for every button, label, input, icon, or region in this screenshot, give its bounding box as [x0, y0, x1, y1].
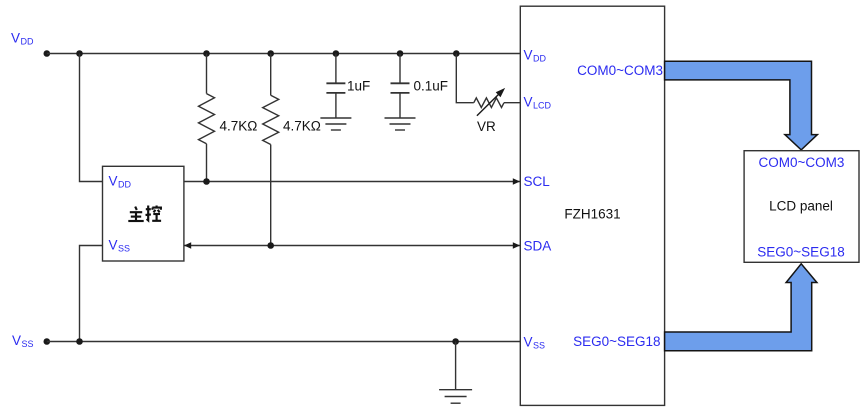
- svg-text:DD: DD: [118, 180, 131, 190]
- pin label U1 VLCD: [524, 95, 552, 111]
- node VSS terminal dot: [44, 338, 51, 345]
- node VSS label: [12, 333, 34, 349]
- svg-text:SS: SS: [118, 244, 130, 254]
- junction dot VDD rail / MCU branch: [76, 50, 83, 57]
- junction dot SDA / R2: [267, 242, 274, 249]
- svg-text:VR: VR: [477, 119, 496, 134]
- svg-text:DD: DD: [21, 37, 34, 47]
- capacitor C2 0.1uF: [391, 54, 410, 119]
- svg-text:SS: SS: [22, 339, 34, 349]
- svg-text:V: V: [12, 333, 21, 348]
- arrowhead SCL into U1: [513, 178, 520, 185]
- wire SCL net: [184, 181, 520, 183]
- svg-text:SDA: SDA: [524, 239, 552, 254]
- pin label MCU VDD: [109, 174, 132, 190]
- junction dot VSS rail / MCU: [76, 338, 83, 345]
- resistor R1 4.7K (SCL pull-up): [199, 54, 215, 182]
- pin label MCU VSS: [109, 238, 131, 254]
- capacitor C1 1uF: [326, 54, 345, 119]
- svg-text:4.7KΩ: 4.7KΩ: [220, 119, 258, 134]
- LCD panel box: [744, 151, 859, 263]
- junction dot VDD rail / C2: [397, 50, 404, 57]
- bus arrow COM0~COM3 to LCD: [665, 61, 818, 150]
- svg-text:COM0~COM3: COM0~COM3: [577, 63, 663, 78]
- junction dot VDD rail / R1: [203, 50, 210, 57]
- svg-text:LCD: LCD: [533, 101, 552, 111]
- junction dot SCL / R1: [203, 178, 210, 185]
- wire VDD rail: [47, 53, 521, 55]
- svg-text:DD: DD: [533, 54, 546, 64]
- svg-text:V: V: [109, 174, 118, 189]
- svg-text:V: V: [109, 238, 118, 253]
- bus arrow SEG0~SEG18 to LCD: [665, 264, 817, 351]
- svg-text:V: V: [11, 31, 20, 46]
- svg-text:V: V: [524, 335, 533, 350]
- svg-text:SEG0~SEG18: SEG0~SEG18: [573, 334, 660, 349]
- svg-text:LCD panel: LCD panel: [769, 199, 833, 214]
- svg-text:SS: SS: [533, 341, 545, 351]
- svg-text:0.1uF: 0.1uF: [414, 79, 449, 94]
- junction dot VDD rail / VR branch: [453, 50, 460, 57]
- MCU name 主控 (drawn strokes): [128, 206, 161, 222]
- IC U1 FZH1631 box: [520, 6, 664, 405]
- arrowhead SDA into U1: [513, 242, 520, 249]
- ground symbol under C2: [385, 118, 416, 130]
- svg-text:FZH1631: FZH1631: [564, 207, 620, 222]
- junction dot VDD rail / C1: [333, 50, 340, 57]
- junction dot VDD rail / R2: [267, 50, 274, 57]
- MCU U2 box (main controller): [103, 166, 184, 261]
- svg-text:SCL: SCL: [524, 174, 551, 189]
- svg-text:V: V: [524, 95, 533, 110]
- potentiometer VR adjust arrow: [477, 89, 504, 115]
- wire SDA net: [184, 245, 520, 247]
- svg-text:4.7KΩ: 4.7KΩ: [283, 119, 321, 134]
- wire VSS rail: [47, 341, 521, 343]
- svg-text:COM0~COM3: COM0~COM3: [759, 155, 845, 170]
- ground symbol under C1: [320, 118, 351, 130]
- svg-text:V: V: [524, 48, 533, 63]
- arrowhead SDA into MCU: [184, 242, 191, 249]
- ground symbol under VSS rail: [439, 342, 472, 404]
- wire MCU VSS pin to VSS rail: [80, 246, 103, 342]
- pin label U1 VDD: [524, 48, 547, 64]
- junction dot VSS rail / ground: [452, 338, 459, 345]
- pin label U1 VSS: [524, 335, 546, 351]
- svg-text:SEG0~SEG18: SEG0~SEG18: [757, 245, 844, 260]
- potentiometer VR wiring: [456, 54, 520, 108]
- resistor R2 4.7K (SDA pull-up): [263, 54, 279, 246]
- node VDD terminal dot: [44, 50, 51, 57]
- wire VDD rail to MCU VDD pin: [80, 54, 103, 182]
- svg-text:1uF: 1uF: [347, 79, 370, 94]
- node VDD label: [11, 31, 34, 47]
